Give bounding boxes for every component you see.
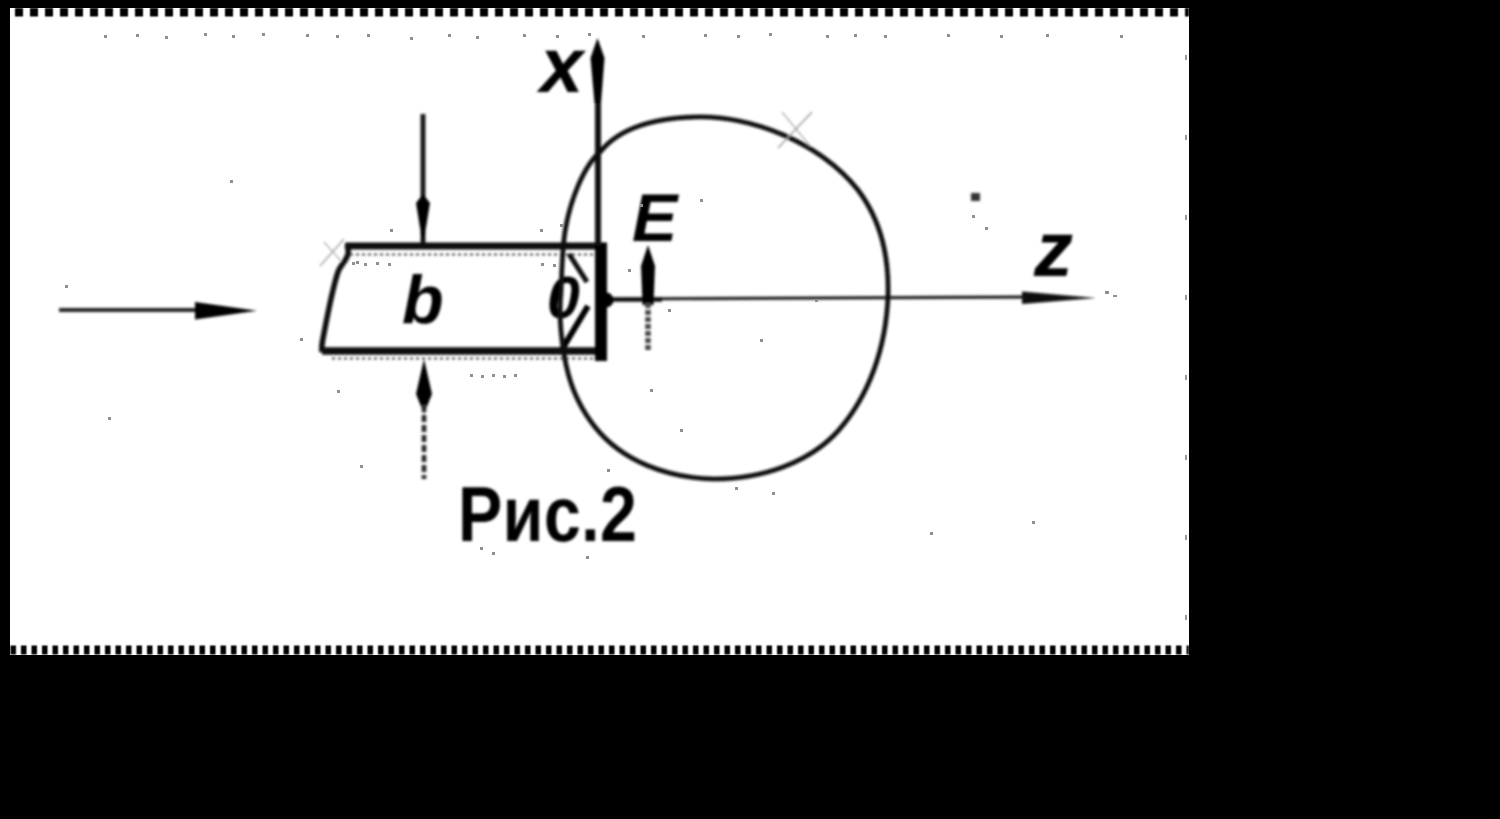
slash mark lower near origin (561, 306, 588, 351)
waveguide right edge / aperture plane (thick) (595, 243, 607, 361)
svg-text:E: E (632, 180, 680, 256)
scan noise dots (65, 33, 1123, 559)
bottom perforation teeth (10, 646, 1189, 655)
svg-text:Рис.2: Рис.2 (458, 471, 637, 558)
svg-text:b: b (402, 262, 444, 338)
dark speck right of circle (971, 193, 980, 201)
waveguide broken-end (break line) (322, 245, 349, 352)
dimension arrow b (bottom, pointing up) (416, 359, 432, 414)
right page edge dotted line (1185, 55, 1187, 620)
scratch marks near waveguide corner (320, 239, 344, 266)
waveguide bottom wall (322, 347, 607, 355)
svg-text:z: z (1033, 205, 1073, 293)
scanned page (white) (10, 8, 1189, 655)
radiation pattern circle (560, 117, 888, 479)
svg-text:x: x (536, 21, 587, 109)
scratch marks near circle top (778, 112, 812, 148)
incident wave arrow (59, 308, 200, 312)
top perforation teeth (10, 8, 1189, 17)
z axis (horizontal) (606, 297, 1026, 299)
waveguide top wall (345, 243, 607, 250)
E field arrow (pointing up) (641, 245, 655, 305)
slash mark upper near origin (569, 254, 587, 282)
origin dot (599, 293, 614, 308)
dimension arrow b (top, pointing down) (421, 114, 426, 243)
x axis (vertical) (595, 90, 601, 246)
